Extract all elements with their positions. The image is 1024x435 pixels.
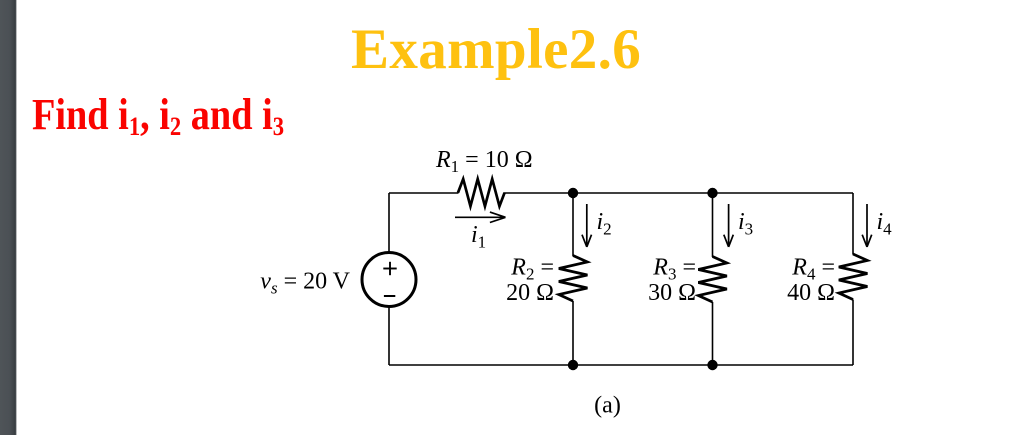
wire: R3 branch upper	[712, 193, 714, 257]
svg-text:i3: i3	[738, 209, 753, 239]
svg-text:20 Ω: 20 Ω	[506, 280, 554, 306]
wire: R2 branch upper	[572, 193, 574, 256]
wire: top-left horizontal segment	[389, 192, 459, 194]
wire: bottom horizontal	[389, 364, 853, 366]
svg-text:40 Ω: 40 Ω	[787, 280, 835, 306]
wire: right vertical above R4	[852, 193, 854, 255]
resistor R1 zigzag	[458, 179, 505, 206]
wire: top horizontal from R1 to right corner	[504, 192, 853, 194]
svg-text:(a): (a)	[594, 393, 621, 419]
node dot: top node at R2	[568, 188, 578, 198]
svg-text:R1 = 10 Ω: R1 = 10 Ω	[435, 147, 533, 176]
node dot: bottom node at R2	[568, 360, 578, 370]
current arrow i2	[582, 204, 592, 247]
current arrow i3	[724, 204, 734, 247]
resistor R2 zigzag	[559, 256, 588, 302]
wire: R2 branch lower	[572, 301, 574, 365]
wire: left vertical above source	[388, 193, 390, 253]
voltage source V1	[362, 253, 416, 307]
node dot: top node at R3	[707, 188, 717, 198]
resistor R3 zigzag	[698, 257, 727, 303]
wire: R3 branch lower	[712, 302, 714, 365]
resistor R4 zigzag	[839, 254, 868, 300]
svg-text:i2: i2	[597, 209, 612, 239]
svg-text:i4: i4	[877, 209, 893, 239]
node dot: bottom node at R3	[707, 360, 717, 370]
current arrow i4	[862, 204, 872, 247]
svg-text:vs = 20 V: vs = 20 V	[260, 269, 350, 298]
svg-text:30 Ω: 30 Ω	[648, 280, 696, 306]
current arrow i1	[455, 212, 506, 222]
wire: right vertical below R4	[852, 300, 854, 366]
svg-text:i1: i1	[471, 222, 486, 252]
wire: left vertical below source	[388, 306, 390, 365]
